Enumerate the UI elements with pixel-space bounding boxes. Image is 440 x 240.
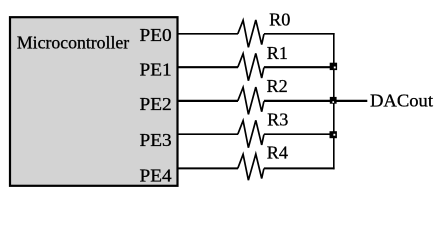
junction dot at R1 [330, 63, 337, 70]
junction dot at R2 (DACout node) [330, 97, 337, 104]
resistor R2 [238, 87, 264, 114]
bus vertical wire [333, 33, 335, 169]
svg-text:PE0: PE0 [140, 25, 172, 45]
svg-text:R0: R0 [269, 10, 290, 30]
wire PE2 to R2 [178, 100, 239, 102]
wire PE1 to R1 [178, 66, 239, 68]
svg-text:PE2: PE2 [140, 94, 172, 114]
svg-text:PE1: PE1 [140, 60, 172, 80]
wire PE0 to R0 [178, 33, 239, 35]
svg-text:R3: R3 [267, 110, 288, 130]
microcontroller box U1 [10, 17, 178, 186]
svg-text:R1: R1 [267, 43, 288, 63]
svg-text:PE3: PE3 [140, 130, 172, 150]
resistor R3 [238, 120, 264, 147]
junction dot at R3 [330, 131, 337, 138]
svg-text:Microcontroller: Microcontroller [17, 33, 129, 53]
wire PE4 to R4 [178, 167, 239, 169]
svg-text:R4: R4 [267, 143, 288, 163]
wire R4 to bus [264, 167, 335, 169]
wire R3 to bus [264, 133, 335, 135]
wire R1 to bus [264, 66, 335, 68]
wire R2 to bus [264, 100, 335, 102]
svg-text:DACout: DACout [370, 91, 433, 111]
svg-text:R2: R2 [267, 76, 288, 96]
resistor R0 [238, 20, 264, 47]
wire R0 to bus [264, 33, 335, 35]
wire PE3 to R3 [178, 133, 239, 135]
svg-text:PE4: PE4 [140, 165, 172, 185]
resistor R4 [238, 154, 264, 180]
wire DACout [334, 100, 367, 102]
resistor R1 [238, 53, 264, 80]
